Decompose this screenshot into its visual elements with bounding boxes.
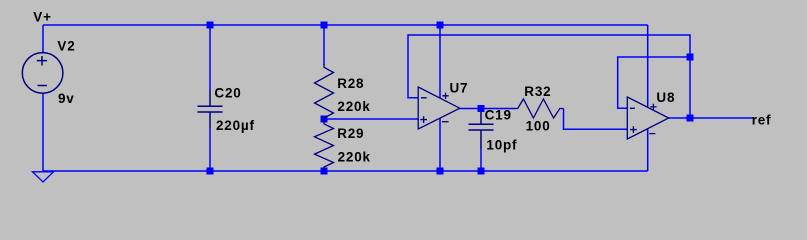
C20 top lead navy segment xyxy=(209,90,211,106)
svg-text:C20: C20 xyxy=(214,86,241,101)
wire U7 bottom power pin xyxy=(439,118,441,171)
junction node on ground rail at C19 xyxy=(478,168,485,175)
junction node on V+ rail at C20 xyxy=(207,22,214,29)
svg-text:100: 100 xyxy=(526,119,551,134)
voltage source V2 circle xyxy=(22,53,63,94)
svg-text:V2: V2 xyxy=(57,39,75,54)
svg-text:U8: U8 xyxy=(656,90,675,105)
resistor R29 zigzag xyxy=(315,119,334,171)
svg-text:V+: V+ xyxy=(33,9,52,24)
C20 bottom lead navy segment xyxy=(209,112,211,128)
svg-text:10pf: 10pf xyxy=(486,138,517,153)
op-amp U8 triangle xyxy=(627,97,668,139)
C19 top lead navy segment xyxy=(480,112,482,124)
wire V2 top lead xyxy=(42,25,44,53)
wire C19 bottom lead xyxy=(480,149,482,171)
U8 -input mark xyxy=(630,107,635,109)
U7 bottom power minus mark xyxy=(442,121,449,123)
wire C19 top lead xyxy=(480,109,482,113)
wire node R28/R29 to U7 +input xyxy=(324,118,418,120)
junction node on ground rail at C20 xyxy=(207,168,214,175)
svg-text:ref: ref xyxy=(752,112,772,127)
wire U8 -input feedback loop xyxy=(618,57,690,108)
junction node U7 output / C19 / R32 xyxy=(478,105,485,112)
V2 minus mark xyxy=(38,85,48,87)
wire C20 top lead xyxy=(209,25,211,90)
resistor R32 zigzag xyxy=(514,99,564,118)
wire U7 top power pin xyxy=(439,25,441,98)
wire R28 top lead xyxy=(323,25,325,65)
svg-text:U7: U7 xyxy=(450,81,469,96)
U8 +input mark xyxy=(630,126,637,133)
wire R32 to U8 +input xyxy=(564,109,628,130)
svg-text:9v: 9v xyxy=(58,91,75,106)
svg-text:220k: 220k xyxy=(338,149,371,164)
junction node on V+ rail at U7 power xyxy=(437,22,444,29)
wire C20 bottom lead xyxy=(209,128,211,171)
svg-text:R28: R28 xyxy=(337,76,364,91)
wire V+ top rail xyxy=(43,24,648,26)
svg-text:C19: C19 xyxy=(485,107,512,122)
junction node on V+ rail at R28 xyxy=(321,22,328,29)
junction node on ground rail at R29 xyxy=(321,168,328,175)
svg-text:220k: 220k xyxy=(337,99,370,114)
junction node R28/R29 divider xyxy=(321,116,328,123)
junction node U8 feedback upper xyxy=(687,54,694,61)
resistor R28 zigzag xyxy=(315,64,334,119)
U7 top power plus mark xyxy=(442,93,448,99)
wire U7 feedback from U8 output to U7 -input xyxy=(408,35,690,118)
svg-text:R32: R32 xyxy=(524,84,551,99)
svg-text:R29: R29 xyxy=(337,126,364,141)
capacitor C20 plates xyxy=(198,106,223,112)
U8 top power plus mark xyxy=(650,104,656,110)
ground symbol xyxy=(33,172,54,182)
U7 -input mark xyxy=(421,97,427,99)
wire ground bottom rail xyxy=(43,170,648,172)
svg-text:220µf: 220µf xyxy=(216,118,255,133)
wire U8 top power pin from V+ rail xyxy=(647,25,649,107)
U8 bottom power minus mark xyxy=(649,133,655,135)
junction node on ground rail at U7 power xyxy=(437,168,444,175)
junction node U8 output xyxy=(687,115,694,122)
wire V2 bottom lead xyxy=(42,93,44,171)
wire U8 output to ref xyxy=(669,117,753,119)
op-amp U7 triangle xyxy=(418,87,460,129)
wire U8 bottom power pin from ground rail xyxy=(647,129,649,171)
V2 plus mark xyxy=(37,56,47,66)
wire U7 output to R32 xyxy=(460,108,515,110)
U7 +input mark xyxy=(420,116,427,123)
capacitor C19 plates xyxy=(469,124,494,130)
C19 bottom lead navy segment xyxy=(480,130,482,149)
